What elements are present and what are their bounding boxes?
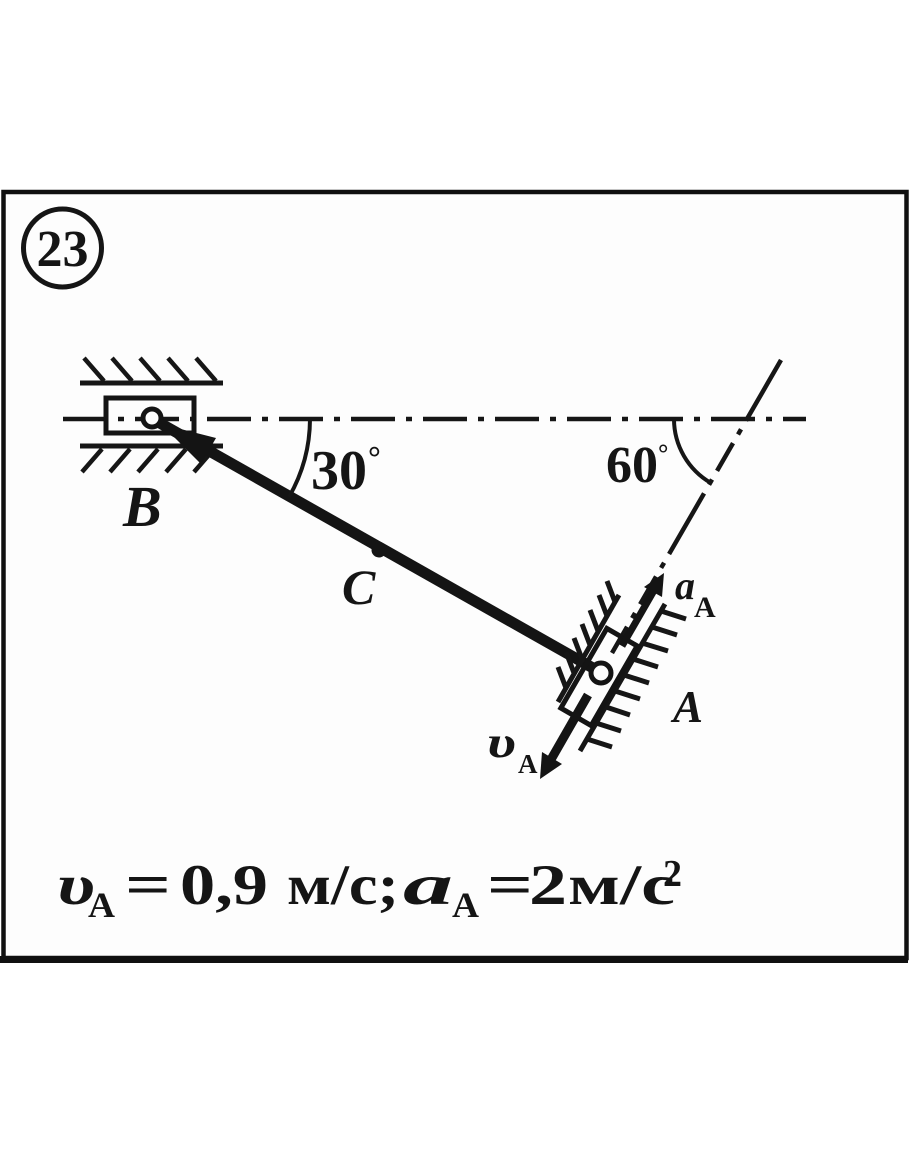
svg-text:A: A — [670, 682, 703, 732]
label a_A — [675, 563, 716, 624]
svg-text:B: B — [122, 474, 162, 539]
label v_A — [487, 718, 538, 779]
30 degree angle arc — [289, 419, 310, 497]
arrowhead on rod at B end — [161, 424, 216, 464]
formula: v_A = 0,9 m/s; a_A = 2 m/s^2 — [57, 853, 682, 925]
svg-text:°: ° — [368, 439, 381, 475]
svg-text:C: C — [342, 559, 376, 615]
upper guide wall of slider B (hatched) — [80, 358, 223, 383]
svg-text:A: A — [518, 749, 538, 779]
inclined guide axis (dash-dot line) — [612, 360, 781, 653]
svg-text:0,9: 0,9 — [180, 854, 268, 917]
slider B block — [106, 398, 194, 433]
lower guide wall of slider B (hatched) — [80, 446, 223, 472]
frame border — [0, 192, 908, 960]
label 30 degrees — [311, 439, 381, 502]
svg-text:A: A — [694, 591, 716, 624]
horizontal guide axis (dash-dot line) — [63, 417, 806, 422]
slider A block (rotated along incline) — [561, 628, 637, 725]
svg-text:2: 2 — [663, 853, 682, 895]
label C — [342, 559, 376, 615]
svg-text:a: a — [675, 563, 695, 608]
problem number badge 23 — [24, 209, 102, 287]
label B — [122, 474, 162, 539]
svg-text:υ: υ — [487, 718, 516, 767]
pin B (hinge) — [143, 409, 161, 427]
velocity arrow v_A — [540, 695, 588, 779]
pin A (hinge) — [591, 663, 611, 683]
point C (midpoint dot on rod) — [372, 543, 387, 558]
svg-text:23: 23 — [37, 221, 89, 278]
label A — [670, 682, 703, 732]
svg-text:A: A — [452, 885, 479, 925]
60 degree angle arc — [674, 419, 711, 483]
left wall of inclined guide (hatched) — [558, 581, 619, 702]
svg-text:м/с: м/с — [568, 854, 675, 917]
svg-text:=: = — [125, 854, 171, 917]
svg-text:м/с;: м/с; — [287, 854, 399, 917]
rod B-C-A — [158, 422, 600, 672]
svg-text:=: = — [487, 854, 533, 917]
svg-text:2: 2 — [529, 854, 567, 917]
right wall of inclined guide (hatched) — [580, 604, 686, 751]
label 60 degrees — [606, 437, 668, 494]
acceleration arrow a_A — [622, 573, 664, 646]
svg-text:°: ° — [658, 439, 668, 468]
svg-text:a: a — [403, 854, 453, 917]
svg-text:30: 30 — [311, 440, 367, 502]
svg-text:A: A — [88, 885, 115, 925]
svg-text:60: 60 — [606, 437, 658, 494]
